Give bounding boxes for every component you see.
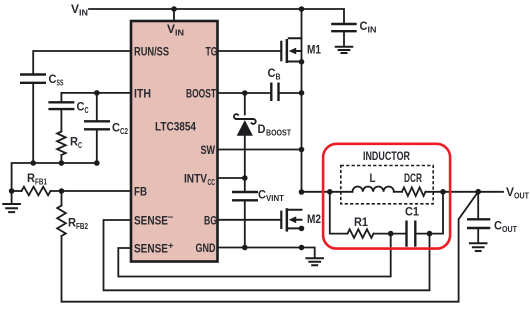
svg-text:BG: BG [204,216,217,228]
svg-text:SENSE: SENSE [134,244,168,256]
svg-text:R1: R1 [354,217,369,229]
svg-text:C: C [85,105,89,115]
svg-text:INTV: INTV [184,174,207,186]
svg-text:INDUCTOR: INDUCTOR [363,151,411,163]
svg-text:FB2: FB2 [76,221,88,231]
svg-text:BOOST: BOOST [186,89,216,101]
svg-text:C: C [258,190,266,202]
svg-text:B: B [276,72,281,82]
svg-text:M2: M2 [307,214,321,226]
svg-text:C: C [78,140,82,150]
svg-text:SW: SW [201,145,216,157]
svg-text:LTC3854: LTC3854 [155,122,197,134]
svg-text:FB1: FB1 [35,177,47,187]
svg-text:OUT: OUT [514,191,530,201]
svg-text:VINT: VINT [266,193,285,203]
svg-text:IN: IN [368,25,377,35]
svg-text:L: L [370,173,376,185]
svg-text:C: C [268,68,276,80]
svg-text:C: C [77,102,85,114]
svg-text:C: C [494,221,502,233]
svg-text:GND: GND [196,243,216,255]
svg-text:RUN/SS: RUN/SS [134,47,169,59]
svg-text:C1: C1 [405,207,420,219]
svg-text:IN: IN [79,8,88,18]
svg-text:M1: M1 [307,45,322,57]
svg-text:TG: TG [206,47,218,59]
svg-text:C: C [360,21,368,33]
svg-text:OUT: OUT [502,224,518,234]
svg-text:IN: IN [175,28,184,38]
svg-text:SENSE: SENSE [134,216,168,228]
svg-text:FB: FB [134,187,147,199]
svg-text:C2: C2 [120,126,128,136]
svg-text:DCR: DCR [404,173,422,185]
svg-text:+: + [168,241,174,251]
svg-text:CC: CC [208,177,216,187]
svg-text:C: C [112,123,120,135]
svg-text:ITH: ITH [134,89,151,101]
svg-text:C: C [49,74,57,86]
svg-text:SS: SS [57,78,64,88]
svg-text:–: – [168,212,174,222]
svg-text:D: D [258,124,266,136]
svg-text:BOOST: BOOST [266,128,292,138]
